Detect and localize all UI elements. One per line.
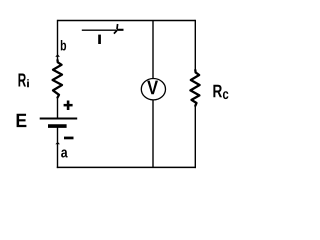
current I arrowhead up-flick <box>116 24 119 29</box>
current arrowhead tick near b <box>55 54 60 57</box>
resistor Rc (squiggle) <box>190 70 199 106</box>
resistor Ri (squiggle) <box>53 60 62 98</box>
label I <box>98 35 101 44</box>
plus sign of battery <box>64 104 73 107</box>
wire bottom rail <box>57 166 196 168</box>
wire voltmeter branch upper <box>152 21 154 79</box>
label E <box>17 114 27 127</box>
wire left branch upper (node b to Ri) <box>57 20 59 61</box>
current I arrow shaft <box>82 29 117 31</box>
node a <box>61 149 68 157</box>
current arrowhead tick near a <box>55 142 60 144</box>
battery E negative plate (short thick) <box>48 124 67 128</box>
voltmeter letter V <box>147 81 158 95</box>
minus sign of battery <box>64 137 74 140</box>
battery E positive plate (long) <box>40 118 77 120</box>
wire right branch lower <box>194 105 196 168</box>
wire voltmeter branch lower <box>152 100 154 168</box>
voltmeter V (circle) <box>141 79 165 100</box>
label Ri <box>19 74 26 87</box>
current I arrowhead down-flick <box>114 31 117 34</box>
wire top rail b to top-right <box>58 20 196 22</box>
wire battery to node a <box>57 128 59 169</box>
wire Ri to battery plus plate <box>57 97 59 118</box>
current I arrowhead overshoot dash <box>117 29 124 31</box>
wire right branch upper <box>194 20 196 71</box>
label Rc <box>213 85 222 98</box>
node b <box>61 40 66 50</box>
